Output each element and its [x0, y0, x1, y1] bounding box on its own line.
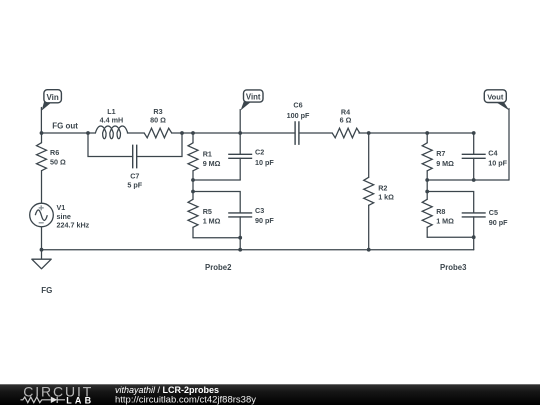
svg-text:C5: C5 [489, 208, 498, 217]
wire R2 top lead [368, 133, 370, 177]
svg-text:1 kΩ: 1 kΩ [378, 193, 394, 202]
capacitor C6 [295, 121, 299, 145]
resistor R8 [422, 199, 432, 227]
wire top rail E [359, 132, 474, 134]
wire R7-R8 link [426, 180, 428, 192]
wire row2 left and C3 top stem [193, 192, 240, 213]
svg-text:100 pF: 100 pF [287, 111, 310, 120]
svg-text:V1: V1 [57, 203, 66, 212]
wire C2 top stem [239, 133, 241, 154]
svg-text:LAB: LAB [66, 395, 94, 405]
svg-text:9 MΩ: 9 MΩ [436, 159, 454, 168]
wire R7 bottom lead [426, 171, 428, 180]
footer bar [0, 384, 540, 405]
resistor R3 [144, 128, 172, 138]
svg-text:Vint: Vint [246, 92, 261, 101]
wire top rail C [172, 132, 295, 134]
svg-text:C4: C4 [488, 149, 497, 158]
wire V1 bottom lead [41, 227, 43, 250]
capacitor C4 [462, 154, 486, 158]
svg-text:4.4 mH: 4.4 mH [100, 116, 124, 125]
svg-text:Vin: Vin [46, 93, 58, 102]
svg-text:90 pF: 90 pF [255, 216, 274, 225]
svg-text:1 MΩ: 1 MΩ [436, 216, 454, 225]
logo resistor-diode glyph [21, 397, 66, 403]
wire R5 top lead [192, 192, 194, 200]
wire R1-R5 link [192, 180, 194, 192]
svg-text:10 pF: 10 pF [255, 158, 274, 167]
svg-text:50 Ω: 50 Ω [50, 158, 66, 167]
wire R8 top lead [426, 192, 428, 200]
wire R8 bottom lead [426, 227, 428, 237]
wire R6 top lead [41, 133, 43, 143]
svg-text:1 MΩ: 1 MΩ [203, 216, 221, 225]
wire R2 bottom lead [368, 205, 370, 249]
flag Vout [484, 90, 509, 111]
wire C2 bottom stem [239, 158, 241, 180]
wire R5 bottom lead [192, 227, 194, 237]
wire Vint stem [239, 110, 241, 134]
wire R6 bottom to V1 [41, 171, 43, 204]
wire top rail D [299, 132, 332, 134]
svg-text:FG out: FG out [52, 121, 78, 130]
wire bottom rail [42, 249, 474, 251]
wire row3 left [193, 237, 240, 239]
ground [32, 259, 51, 269]
wire Vout stem [508, 109, 510, 181]
svg-text:C2: C2 [255, 148, 264, 157]
svg-text:9 MΩ: 9 MΩ [203, 159, 221, 168]
wire ground stem [41, 250, 43, 260]
svg-text:90 pF: 90 pF [489, 218, 508, 227]
svg-text:C3: C3 [255, 206, 264, 215]
svg-text:R5: R5 [203, 207, 212, 216]
resistor R7 [422, 143, 432, 171]
wire C7 left branch [88, 133, 133, 157]
wire C5 bottom stem [473, 217, 475, 250]
resistor R1 [188, 143, 198, 171]
wire R1 top lead [192, 133, 194, 143]
wire C3 bottom stem [239, 217, 241, 250]
wire top rail B [127, 132, 144, 134]
capacitor C2 [228, 154, 252, 158]
svg-text:Probe3: Probe3 [440, 263, 467, 272]
svg-text:R2: R2 [378, 183, 387, 192]
svg-text:C7: C7 [130, 171, 139, 180]
svg-text:6 Ω: 6 Ω [340, 116, 352, 125]
svg-text:5 pF: 5 pF [127, 181, 142, 190]
wire C7 right branch [137, 133, 182, 157]
resistor R4 [332, 128, 360, 138]
wire Vin stem [40, 108, 42, 134]
resistor R5 [188, 199, 198, 227]
svg-text:R8: R8 [436, 207, 445, 216]
capacitor C3 [228, 213, 252, 217]
wire row3 right [427, 236, 474, 238]
svg-text:R1: R1 [203, 149, 212, 158]
node dots [40, 131, 476, 252]
svg-text:Probe2: Probe2 [205, 263, 232, 272]
svg-text:R7: R7 [436, 149, 445, 158]
svg-text:R6: R6 [50, 148, 59, 157]
svg-text:80 Ω: 80 Ω [150, 116, 166, 125]
inductor L1 [95, 126, 127, 139]
svg-text:224.7 kHz: 224.7 kHz [57, 221, 90, 230]
resistor R6 [37, 143, 47, 171]
wire R1 bottom lead [192, 171, 194, 180]
svg-text:Vout: Vout [487, 93, 504, 102]
wire C4 bottom stem [473, 158, 475, 180]
wire row2 right and C5 top stem [427, 192, 474, 213]
voltage source V1 [30, 203, 54, 227]
wire R7 top lead [426, 133, 428, 143]
wire C4 top stem [473, 133, 475, 154]
svg-text:http://circuitlab.com/ct42jf88: http://circuitlab.com/ct42jf88rs38y [115, 394, 256, 405]
capacitor C7 [133, 145, 137, 169]
wire top rail A [42, 132, 96, 134]
flag Vint [241, 90, 263, 111]
wire row1 right to Vout [427, 179, 509, 181]
capacitor C5 [462, 213, 486, 217]
svg-text:FG: FG [41, 286, 52, 295]
svg-text:10 pF: 10 pF [488, 159, 507, 168]
resistor R2 [364, 177, 374, 205]
svg-text:C6: C6 [293, 100, 302, 109]
wire row1 left [193, 179, 240, 181]
flag Vin [42, 90, 62, 111]
